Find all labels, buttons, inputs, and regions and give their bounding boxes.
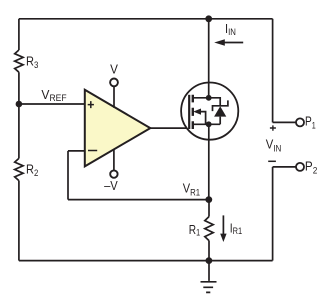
wire VREF to noninverting input (19, 103, 85, 105)
wire R1 to bottom rail (208, 241, 210, 261)
wire drain vertical (208, 19, 210, 98)
op-amp plus input marker (88, 101, 94, 108)
node junction dot top rail (205, 15, 212, 22)
wire feedback vertical (67, 151, 69, 200)
positive supply V line (113, 87, 115, 108)
resistor R1 (205, 217, 213, 241)
resistor R2 (15, 158, 23, 180)
body zener diode cathode bar (213, 100, 228, 111)
wire left rail between R3 and R2 (18, 72, 20, 158)
node VREF junction dot (16, 101, 23, 108)
body zener diode connector from drain (209, 98, 221, 106)
transistor Q1 drain junction dot (206, 95, 212, 101)
node VR1 junction dot (205, 196, 212, 203)
wire P1 stub (273, 121, 296, 123)
ground stub (208, 261, 210, 281)
wire op-amp output to gate (150, 127, 189, 129)
terminal P1 (296, 118, 304, 126)
transistor Q1 body link with arrow (200, 112, 206, 125)
wire top rail (19, 18, 273, 20)
wire feedback horizontal to VR1 (68, 199, 209, 201)
wire source vertical to VR1 node (208, 124, 210, 199)
wire VR1 node to R1 (208, 200, 210, 217)
current IIN arrow (221, 42, 243, 44)
resistor R3 (15, 50, 23, 72)
positive supply V terminal (110, 79, 118, 87)
wire P2 stub (273, 166, 296, 168)
body zener diode triangle (214, 106, 226, 116)
svg-text:–V: –V (104, 178, 119, 193)
op-amp U1 (85, 90, 151, 167)
wire right rail upper (272, 19, 274, 123)
plus polarity marker (270, 125, 276, 130)
transistor Q1 source link (193, 123, 209, 125)
wire inverting input (68, 150, 85, 152)
terminal P2 (296, 163, 304, 171)
wire left rail above R3 (18, 19, 20, 50)
negative supply -V terminal (110, 170, 117, 177)
current IR1 arrow (222, 215, 224, 234)
wire right rail lower (272, 167, 274, 261)
transistor Q1 gate bar (188, 95, 190, 129)
op-amp minus input marker (88, 150, 97, 152)
wire left rail below R2 (18, 181, 20, 261)
body zener diode anode link (209, 117, 221, 125)
transistor Q1 source junction dot (206, 121, 212, 127)
transistor Q1 body circle (181, 83, 238, 140)
node junction dot bottom rail (206, 257, 213, 264)
minus polarity marker (268, 160, 276, 162)
wire bottom rail (19, 260, 273, 262)
transistor Q1 channel segments (192, 95, 194, 129)
negative supply line (113, 149, 115, 170)
transistor Q1 drain link (193, 97, 209, 99)
svg-text:V: V (110, 62, 119, 77)
ground (201, 282, 217, 293)
